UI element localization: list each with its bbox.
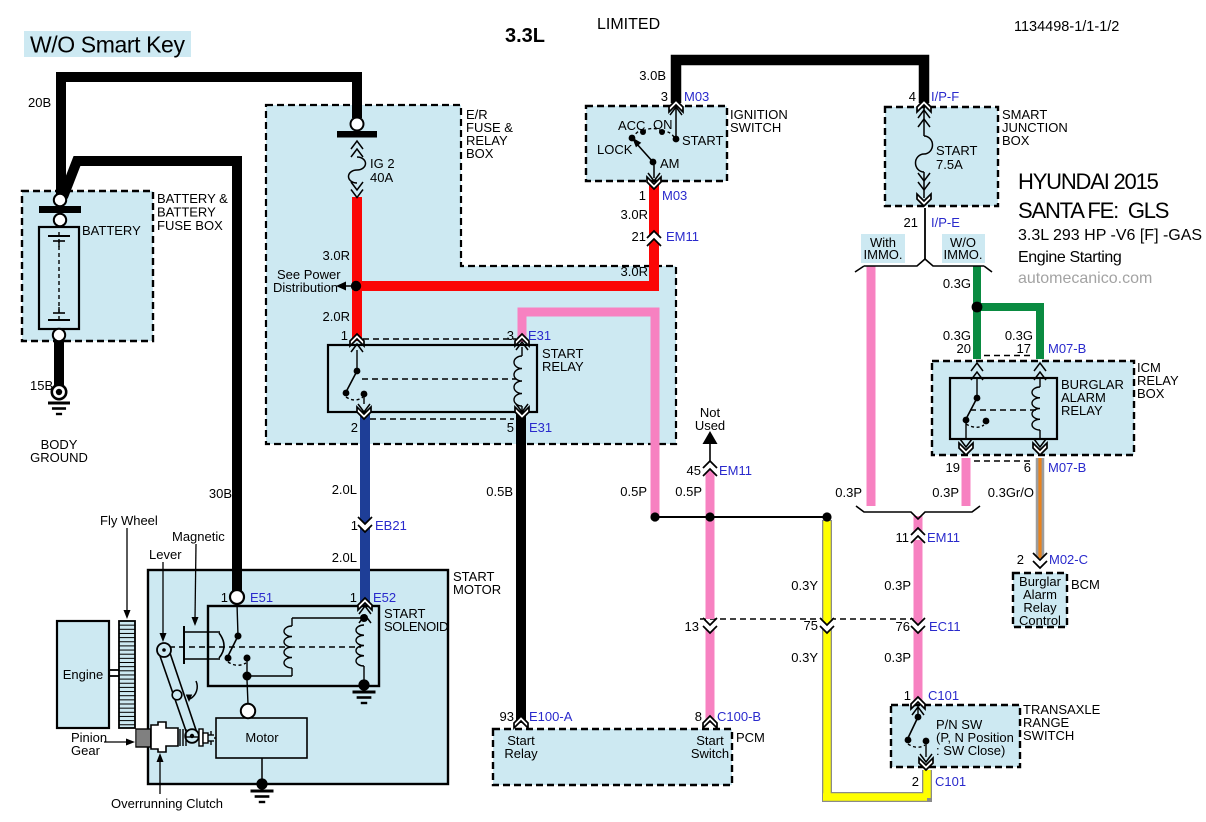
ignition switch internals xyxy=(629,107,682,181)
svg-text:21: 21 xyxy=(632,229,646,244)
svg-text:RELAY: RELAY xyxy=(1061,403,1103,418)
label M07-B top xyxy=(1048,341,1086,356)
label See Power Distribution xyxy=(273,267,341,295)
svg-text:0.3Y: 0.3Y xyxy=(791,578,818,593)
svg-text:Magnetic: Magnetic xyxy=(172,529,225,544)
label 2 M02-C xyxy=(1017,552,1088,567)
wire 0.3P ICM pin19 down xyxy=(962,458,971,506)
svg-text:15B: 15B xyxy=(30,378,53,393)
node: See Power Distribution junction xyxy=(351,281,361,291)
start relay connector dashes E31 top xyxy=(363,338,516,340)
Not Used arrow xyxy=(703,431,718,461)
label 4 I/P-F xyxy=(909,89,959,104)
label 15B xyxy=(30,378,53,393)
svg-text:3: 3 xyxy=(507,328,514,343)
label Lever xyxy=(149,547,182,562)
svg-text:C100-B: C100-B xyxy=(717,709,761,724)
label 3 M03 top xyxy=(661,89,710,104)
svg-text:PCM: PCM xyxy=(736,730,765,745)
label Burglar Alarm Relay Control xyxy=(1019,574,1062,628)
svg-text:3: 3 xyxy=(661,89,668,104)
svg-text:EM11: EM11 xyxy=(719,463,752,478)
labels 19 / 6 M07-B xyxy=(946,460,1087,475)
label arrow: Magnetic xyxy=(192,544,199,626)
svg-text:20: 20 xyxy=(957,341,971,356)
svg-text:E100-A: E100-A xyxy=(529,709,573,724)
wire 0.3G W/O IMMO down to ICM pin20 xyxy=(973,266,981,359)
thin junction line with three nodes xyxy=(650,512,831,521)
label 3.0R upper xyxy=(621,207,648,222)
box: START RELAY (inner) xyxy=(328,345,537,412)
svg-text:30B: 30B xyxy=(209,486,232,501)
svg-text:3.3L 293 HP -V6 [F] -GAS -: 3.3L 293 HP -V6 [F] -GAS - xyxy=(1018,227,1206,244)
label BATTERY xyxy=(82,223,141,238)
svg-text:: SW Close): : SW Close) xyxy=(936,743,1005,758)
label 2.0R xyxy=(323,309,350,324)
svg-text:1: 1 xyxy=(351,518,358,533)
wire 3.0R horizontal power distribution xyxy=(352,281,659,291)
wire 0.5P start relay pin3 elbow xyxy=(522,312,655,517)
label pin2 / pin5 E31 xyxy=(351,420,552,435)
labels 0.3Y 0.3P below connectors xyxy=(791,650,911,665)
svg-text:C101: C101 xyxy=(928,688,959,703)
label Not Used xyxy=(695,405,725,433)
svg-text:1: 1 xyxy=(350,590,357,605)
wire 3.0R ignition M03-1 down xyxy=(649,183,659,291)
svg-text:LIMITED: LIMITED xyxy=(597,16,660,33)
wire 0.3P With IMMO branch xyxy=(867,266,876,506)
label 2.0L upper xyxy=(332,482,357,497)
svg-text:6: 6 xyxy=(1024,460,1031,475)
title block HYUNDAI 2015 xyxy=(1018,169,1206,287)
svg-text:M07-B: M07-B xyxy=(1048,460,1086,475)
svg-text:1134498-1/1-1/2: 1134498-1/1-1/2 xyxy=(1014,19,1119,35)
svg-text:4: 4 xyxy=(909,89,916,104)
svg-text:SOLENOID: SOLENOID xyxy=(384,619,448,634)
svg-text:EC11: EC11 xyxy=(929,619,961,634)
labels 75 / 13 / 76 EC11 xyxy=(685,618,961,634)
svg-text:1: 1 xyxy=(221,590,228,605)
svg-text:START: START xyxy=(682,133,723,148)
svg-text:M07-B: M07-B xyxy=(1048,341,1086,356)
wire 0.3G down to ICM pin17 xyxy=(1036,307,1044,359)
box: BURGLAR ALARM RELAY (inner) xyxy=(950,378,1057,439)
label Engine xyxy=(63,667,103,682)
highlight: W/O IMMO. xyxy=(942,234,985,263)
svg-text:IMMO.: IMMO. xyxy=(944,247,983,262)
label ICM RELAY BOX xyxy=(1137,360,1179,401)
svg-text:19: 19 xyxy=(946,460,960,475)
start relay internals xyxy=(343,334,529,419)
title W/O Smart Key xyxy=(30,32,185,58)
label 1 EB21 xyxy=(351,518,407,533)
labels ignition switch positions xyxy=(597,117,723,171)
svg-text:BOX: BOX xyxy=(1002,133,1030,148)
label arrow: Pinion Gear xyxy=(104,739,135,746)
svg-text:M03: M03 xyxy=(684,89,709,104)
svg-text:HYUNDAI 2015: HYUNDAI 2015 xyxy=(1018,169,1159,194)
svg-text:ON: ON xyxy=(653,117,673,132)
label 1 C101 xyxy=(904,688,959,703)
svg-text:20B: 20B xyxy=(28,95,51,110)
label 20B xyxy=(28,95,51,110)
svg-text:MOTOR: MOTOR xyxy=(453,582,501,597)
start solenoid internals xyxy=(169,590,376,802)
svg-text:GROUND: GROUND xyxy=(30,450,88,465)
battery B1 xyxy=(39,227,79,341)
wire 20B battery to top bus xyxy=(61,77,357,197)
highlight: W/O Smart Key xyxy=(24,31,191,57)
label 2.0L lower xyxy=(332,550,357,565)
svg-text:C101: C101 xyxy=(935,774,966,789)
transaxle range switch P/N SW internals xyxy=(905,705,932,762)
svg-text:93: 93 xyxy=(500,709,514,724)
svg-text:SANTA FE: GLS: SANTA FE: GLS xyxy=(1018,198,1169,223)
svg-text:Overrunning Clutch: Overrunning Clutch xyxy=(111,796,223,811)
svg-text:EM11: EM11 xyxy=(666,229,699,244)
wire 2.0L start relay pin2 to start solenoid E52 xyxy=(360,413,370,605)
svg-text:45: 45 xyxy=(687,463,701,478)
label IGNITION SWITCH xyxy=(730,107,788,135)
label 3.0R lower xyxy=(621,264,648,279)
connector 13 C100 on pink xyxy=(703,618,717,633)
svg-text:Engine Starting: Engine Starting xyxy=(1018,249,1121,266)
box: SMART JUNCTION BOX xyxy=(885,107,998,206)
label Motor xyxy=(245,730,279,745)
connector EM11-45 xyxy=(703,461,717,476)
svg-text:W/O Smart Key: W/O Smart Key xyxy=(30,32,185,58)
connector EM11-21 on red wire xyxy=(647,231,661,246)
label LIMITED xyxy=(597,16,660,33)
svg-text:Engine: Engine xyxy=(63,667,103,682)
svg-text:BCM: BCM xyxy=(1071,577,1100,592)
svg-text:Distribution: Distribution xyxy=(273,280,338,295)
labels Start Relay / Start Switch in PCM xyxy=(504,733,729,761)
wire 0.3Gr/O ICM pin6 to BCM xyxy=(1036,458,1045,558)
svg-text:40A: 40A xyxy=(370,170,393,185)
body ground symbol xyxy=(48,385,70,414)
svg-text:Lever: Lever xyxy=(149,547,182,562)
label IG 2 40A xyxy=(370,156,395,185)
svg-text:IG 2: IG 2 xyxy=(370,156,395,171)
fuse START 7.5A xyxy=(916,108,933,206)
label BODY GROUND xyxy=(30,437,88,465)
svg-text:0.3P: 0.3P xyxy=(884,650,911,665)
connector I/P-F-4 notch xyxy=(917,100,931,112)
svg-text:E52: E52 xyxy=(373,590,396,605)
svg-text:automecanico.com: automecanico.com xyxy=(1018,270,1152,287)
svg-text:0.3P: 0.3P xyxy=(884,578,911,593)
svg-text:SWITCH: SWITCH xyxy=(730,120,781,135)
label 11 EM11 xyxy=(896,530,961,545)
label 3.0R left xyxy=(323,248,350,263)
label BURGLAR ALARM RELAY xyxy=(1061,377,1124,418)
box: START MOTOR xyxy=(148,570,448,784)
highlight: With IMMO. xyxy=(861,234,905,263)
svg-text:5: 5 xyxy=(507,420,514,435)
connector C100-B-8 notch at PCM xyxy=(703,716,717,728)
box: ICM RELAY BOX xyxy=(932,361,1134,455)
svg-text:I/P-E: I/P-E xyxy=(931,215,960,230)
svg-text:EM11: EM11 xyxy=(927,530,960,545)
svg-text:17: 17 xyxy=(1017,341,1031,356)
label TRANSAXLE RANGE SWITCH xyxy=(1023,702,1101,743)
svg-text:1: 1 xyxy=(639,188,646,203)
box: E/R FUSE & RELAY BOX (L-shape) xyxy=(266,105,676,444)
svg-text:3.0R: 3.0R xyxy=(323,248,350,263)
svg-text:Relay: Relay xyxy=(504,746,538,761)
svg-text:I/P-F: I/P-F xyxy=(931,89,959,104)
svg-text:0.5P: 0.5P xyxy=(675,484,702,499)
svg-text:11: 11 xyxy=(896,530,910,545)
wire 0.5B start relay pin5 to PCM 93 xyxy=(516,414,526,723)
label arrow: Lever xyxy=(160,562,167,642)
label 21 EM11 xyxy=(632,229,699,244)
connector E100-A-93 notch at PCM xyxy=(514,716,528,728)
svg-text:3.3L: 3.3L xyxy=(505,25,545,47)
wire 0.3Y yellow PCM loop xyxy=(823,520,927,798)
label Pinion Gear xyxy=(71,730,107,758)
box: TRANSAXLE RANGE SWITCH xyxy=(891,705,1020,767)
svg-text:0.3P: 0.3P xyxy=(932,485,959,500)
label START SOLENOID xyxy=(384,606,448,634)
I/P-E thin wire and IMMO fork xyxy=(855,208,992,272)
box: BATTERY & BATTERY FUSE BOX xyxy=(22,191,153,341)
svg-text:2.0L: 2.0L xyxy=(332,550,357,565)
svg-text:M02-C: M02-C xyxy=(1049,552,1088,567)
svg-text:0.3Gr/O: 0.3Gr/O xyxy=(988,485,1034,500)
label PCM xyxy=(736,730,765,745)
wire 3.0R/2.0R fuse to start relay pin1 xyxy=(352,197,362,341)
svg-text:EB21: EB21 xyxy=(375,518,407,533)
labels 0.3P 0.3P 0.3Gr/O xyxy=(835,485,1034,500)
svg-text:SWITCH: SWITCH xyxy=(1023,728,1074,743)
svg-text:76: 76 xyxy=(896,619,910,634)
svg-text:IMMO.: IMMO. xyxy=(864,247,903,262)
wire 0.5P/0.3P EM11-45 column xyxy=(706,470,715,723)
label 1 M03 bottom xyxy=(639,188,688,203)
label Overrunning Clutch xyxy=(111,796,223,811)
svg-text:2.0R: 2.0R xyxy=(323,309,350,324)
connector 76 EC11 on pink xyxy=(911,618,925,633)
labels 0.5P 0.5P xyxy=(620,484,702,499)
PCM/EC11 connector dashed line 13-75-76 xyxy=(700,618,920,620)
svg-text:Fly Wheel: Fly Wheel xyxy=(100,513,158,528)
svg-text:M03: M03 xyxy=(662,188,687,203)
label 0.3G top xyxy=(943,276,971,291)
svg-text:3.0R: 3.0R xyxy=(621,207,648,222)
svg-text:ACC: ACC xyxy=(618,118,645,133)
connector M02-C-2 at BCM xyxy=(1033,553,1047,568)
svg-text:Switch: Switch xyxy=(691,746,729,761)
label START RELAY xyxy=(542,346,584,374)
label 8 C100-B xyxy=(695,709,761,724)
label 1 E51 xyxy=(221,590,273,605)
lever assembly xyxy=(157,643,199,743)
label pin3 E31 xyxy=(507,328,551,343)
wire 15B battery to body ground xyxy=(54,336,64,387)
connector EB21-1 on blue wire xyxy=(358,517,372,532)
label 1134498-1/1-1/2 xyxy=(1014,19,1119,35)
labels 0.3G pins xyxy=(943,328,1033,343)
svg-text:3.0R: 3.0R xyxy=(621,264,648,279)
fuse IG 2 40A xyxy=(337,118,377,198)
label 2 C101 bottom xyxy=(912,774,966,789)
svg-text:2: 2 xyxy=(912,774,919,789)
engine-flywheel shaft link xyxy=(109,670,119,676)
merge bracket into EM11-11 xyxy=(856,506,980,519)
svg-text:LOCK: LOCK xyxy=(597,142,633,157)
label 45 EM11 xyxy=(687,463,752,478)
label pin1 start relay xyxy=(341,328,348,343)
ICM relay connector dashes M07-B top xyxy=(984,355,1032,357)
svg-text:8: 8 xyxy=(695,709,702,724)
wire 30B horizontal to start motor xyxy=(63,161,237,594)
label START MOTOR xyxy=(453,569,501,597)
burglar alarm relay internals xyxy=(959,363,1047,455)
svg-text:2: 2 xyxy=(351,420,358,435)
wire 3.0B ignition to smart junction box xyxy=(676,60,924,103)
labels 20 / 17 M07-B xyxy=(957,341,1031,356)
label 1 E52 xyxy=(350,590,396,605)
svg-text:BOX: BOX xyxy=(1137,386,1165,401)
label 21 I/P-E xyxy=(904,215,961,230)
box: START SOLENOID xyxy=(208,606,379,686)
svg-text:Motor: Motor xyxy=(245,730,279,745)
label E/R FUSE & RELAY BOX xyxy=(466,107,513,161)
label BCM xyxy=(1071,577,1100,592)
ignition connector M03-1 notch xyxy=(647,177,661,189)
svg-text:0.3G: 0.3G xyxy=(943,276,971,291)
svg-text:E31: E31 xyxy=(528,328,551,343)
svg-text:START: START xyxy=(936,143,977,158)
svg-text:7.5A: 7.5A xyxy=(936,157,963,172)
label W/O IMMO. xyxy=(944,235,983,262)
label 3.3L xyxy=(505,25,545,47)
box: BCM xyxy=(1013,573,1067,627)
svg-text:3.0B: 3.0B xyxy=(639,68,666,83)
start relay connector dashes E31 bottom xyxy=(370,418,514,420)
solenoid plunger (magnetic) xyxy=(184,626,224,664)
see power distribution arrow xyxy=(336,282,352,291)
fly wheel (hatched) xyxy=(119,621,135,728)
svg-text:Used: Used xyxy=(695,418,725,433)
connector 75 on yellow xyxy=(820,618,834,633)
svg-text:13: 13 xyxy=(685,619,699,634)
svg-text:BATTERY: BATTERY xyxy=(82,223,141,238)
wire 0.3G horizontal xyxy=(973,303,1044,311)
svg-text:0.5B: 0.5B xyxy=(486,484,513,499)
ICM relay connector dashes M07-B bottom xyxy=(974,460,1031,462)
ignition connector M03-3 notch xyxy=(669,100,683,112)
label arrow: Fly Wheel xyxy=(124,528,131,619)
label 0.5B xyxy=(486,484,513,499)
label BATTERY & BATTERY FUSE BOX xyxy=(157,191,228,233)
connector C101-1 notch xyxy=(911,697,925,709)
svg-text:0.5P: 0.5P xyxy=(620,484,647,499)
connector EM11-11 xyxy=(911,528,925,543)
box: IGNITION SWITCH xyxy=(586,106,727,181)
label With IMMO. xyxy=(864,235,903,262)
label 3.0B xyxy=(639,68,666,83)
label 30B xyxy=(209,486,232,501)
label arrow: Overrunning Clutch xyxy=(157,753,164,794)
svg-text:21: 21 xyxy=(904,215,918,230)
svg-text:E31: E31 xyxy=(529,420,552,435)
box: Engine xyxy=(57,621,109,728)
battery terminal connector xyxy=(39,194,81,226)
labels 0.3Y 0.3P above connectors xyxy=(791,578,911,593)
label P/N SW (P, N Position : SW Close) xyxy=(936,717,1014,758)
svg-text:RELAY: RELAY xyxy=(542,359,584,374)
svg-text:1: 1 xyxy=(904,688,911,703)
wire 0.3P merged to transaxle switch xyxy=(914,516,923,703)
connector C101-2 notch xyxy=(919,758,933,770)
svg-text:75: 75 xyxy=(804,618,818,633)
svg-text:FUSE BOX: FUSE BOX xyxy=(157,218,223,233)
node: green junction dot xyxy=(972,302,983,313)
label Magnetic xyxy=(172,529,225,544)
pinion gear and overrunning clutch xyxy=(136,722,216,752)
svg-text:BOX: BOX xyxy=(466,146,494,161)
label 93 E100-A xyxy=(500,709,573,724)
svg-text:1: 1 xyxy=(341,328,348,343)
label SMART JUNCTION BOX xyxy=(1002,107,1068,148)
svg-text:2: 2 xyxy=(1017,552,1024,567)
label Fly Wheel xyxy=(100,513,158,528)
svg-text:E51: E51 xyxy=(250,590,273,605)
svg-text:2.0L: 2.0L xyxy=(332,482,357,497)
label START 7.5A xyxy=(936,143,977,172)
svg-text:Control: Control xyxy=(1019,613,1061,628)
svg-text:Gear: Gear xyxy=(71,743,101,758)
box: Motor xyxy=(216,718,307,758)
svg-text:0.3Y: 0.3Y xyxy=(791,650,818,665)
svg-text:AM: AM xyxy=(660,156,680,171)
box: PCM xyxy=(493,729,732,785)
svg-text:0.3P: 0.3P xyxy=(835,485,862,500)
